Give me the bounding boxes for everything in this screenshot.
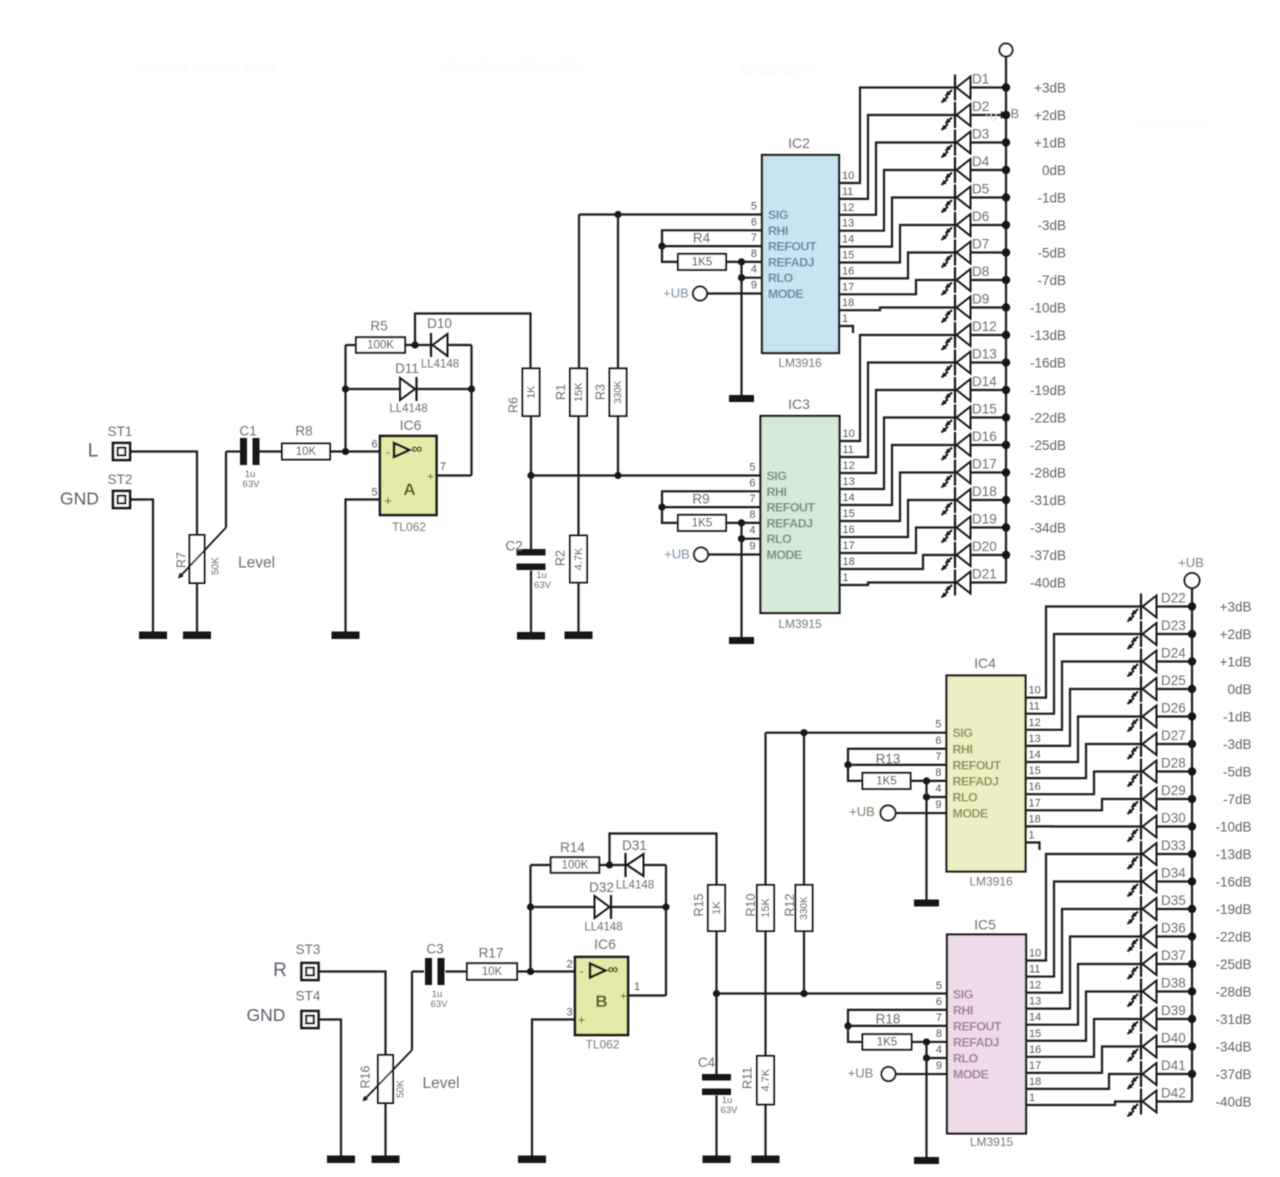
svg-text:D7: D7 [972,237,989,252]
svg-text:D11: D11 [395,361,419,376]
wire ST4 to ground [319,1020,342,1156]
svg-text:-16dB: -16dB [1030,356,1066,371]
ground (C4) [703,1156,731,1164]
wire IC3 pin 11 to D13 [840,363,956,458]
label +3dB [1034,81,1066,96]
svg-text:D30: D30 [1161,811,1186,826]
wire IC5 RLO [927,1057,948,1059]
terminal +UB (IC4) [849,804,895,821]
diode D31 [616,838,654,892]
svg-text:-5dB: -5dB [1037,246,1066,261]
svg-text:D31: D31 [622,838,647,853]
svg-text:LM3916: LM3916 [969,875,1013,889]
svg-text:17: 17 [1029,797,1041,809]
pin 11 label (IC5) [1029,964,1040,976]
node D32 right junction [662,903,669,910]
svg-text:R12: R12 [783,893,797,916]
svg-text:D39: D39 [1161,1003,1186,1018]
svg-text:R10: R10 [744,893,758,916]
wire op-amp output pin 7 [437,474,472,476]
wire IC4 pin 12 to D24 [1026,662,1142,730]
label -13dB [1030,328,1066,343]
node REFADJ junction [738,258,745,265]
svg-text:14: 14 [843,492,855,504]
label GND [60,489,99,509]
wire loop node to R6 top [415,314,531,369]
LED D7 [942,237,1011,268]
label L [88,441,99,462]
svg-text:D42: D42 [1161,1086,1186,1101]
label -40dB [1030,576,1066,591]
node R5/D10 junction [411,341,418,348]
svg-text:8: 8 [751,248,757,260]
capacitor C3 [425,942,448,1011]
svg-text:15: 15 [843,508,855,520]
svg-text:MODE: MODE [953,1068,988,1082]
wire C1 to R8 [260,450,283,452]
svg-text:15: 15 [1029,1028,1041,1040]
svg-text:D28: D28 [1161,756,1186,771]
svg-text:16: 16 [843,524,855,536]
wire IC4 pin 18 to D30 [1026,825,1142,827]
pin 12 label (IC3) [843,460,855,472]
svg-text:4: 4 [751,264,757,276]
svg-text:17: 17 [843,540,855,552]
svg-text:5: 5 [935,719,941,731]
svg-text:-22dB: -22dB [1215,930,1251,945]
svg-text:ST2: ST2 [108,472,133,487]
svg-text:8: 8 [935,767,941,779]
wire IC3 REFOUT [662,506,761,508]
LED D40 [1128,1031,1197,1062]
wire IC2 pin 15 to D6 [839,225,955,263]
wire IC2 pin 11 to D2 [839,115,955,199]
svg-text:D16: D16 [972,429,997,444]
pin 18 label (IC4) [1029,813,1041,825]
node R13 left junction [844,761,851,768]
wire R5 to D10 [405,344,431,346]
svg-text:GND: GND [60,489,99,509]
svg-text:D26: D26 [1161,701,1186,716]
pin 12 label (IC4) [1029,717,1041,729]
svg-text:D33: D33 [1161,838,1186,853]
svg-text:-: - [579,964,583,979]
svg-text:9: 9 [751,280,757,292]
pin 13 label (IC4) [1029,733,1041,745]
wire IC5 SIG line [717,992,948,994]
svg-text:-40dB: -40dB [1215,1095,1251,1110]
wire output riser (B) [665,865,667,996]
wire feedback rail [344,345,346,452]
wire IC5 pin 17 to D40 [1026,1047,1141,1073]
svg-text:RHI: RHI [768,224,788,238]
wire R1 to R2 [577,416,579,536]
svg-text:R8: R8 [295,424,312,439]
svg-text:11: 11 [1029,701,1040,713]
svg-text:LM3915: LM3915 [970,1135,1014,1149]
LED D41 [1128,1058,1197,1089]
LED D37 [1128,948,1197,979]
wire ST2 to ground [130,500,153,632]
svg-text:B: B [595,992,607,1011]
resistor R8 [282,424,330,460]
LED D15 [942,402,1011,433]
resistor R13 1K5 [863,752,911,789]
LED D25 [1128,673,1197,704]
ground (IC5) [914,1157,939,1164]
pin 11 label (IC3) [843,444,854,456]
svg-text:5: 5 [751,201,757,213]
svg-text:C3: C3 [426,942,443,957]
svg-text:R6: R6 [507,397,521,413]
label +3dB (right) [1220,600,1252,615]
svg-text:∞: ∞ [412,441,423,458]
wire pot to ground (R16) [384,1103,386,1156]
wire R18 right to REFADJ [912,1041,948,1043]
svg-text:IC5: IC5 [974,917,996,933]
wire R3 bottom [617,416,619,476]
LED D5 [942,182,1011,213]
ground (op-amp A pin5) [332,632,360,640]
wire R4 right to REFADJ [726,261,762,263]
wire rail to R14 [531,864,552,866]
wire ST1 to pot [130,452,197,536]
label -5dB [1037,246,1066,261]
pin 14 label [842,234,854,246]
wire op-amp output pin 1 [628,994,666,996]
svg-text:SIG: SIG [767,469,787,483]
svg-text:4.7K: 4.7K [760,1068,772,1091]
wire D11 to riser [417,388,472,390]
label -7dB (right) [1223,792,1252,807]
wire op-amp pin 3 [532,1020,575,1156]
svg-text:6: 6 [371,439,377,451]
wire D31 anode to riser [644,864,667,866]
label Level (R) [422,1075,459,1092]
svg-text:0dB: 0dB [1042,163,1066,178]
wire pot wiper to C1 [226,450,240,452]
LED D30 [1128,811,1197,842]
node R3/SIG junction [614,472,621,479]
LED D14 [942,374,1011,405]
wire IC5 pin 1 to D42 [1026,1102,1141,1106]
svg-text:-1dB: -1dB [1223,710,1252,725]
wire R17 to op-amp pin 2 [517,970,575,972]
svg-text:1: 1 [1029,830,1035,842]
pin 1 label [842,313,848,325]
pin 15 label (IC4) [1029,765,1041,777]
label Level [238,555,275,572]
svg-text:13: 13 [842,218,854,230]
wire R10 to R11 [764,931,766,1056]
svg-text:REFADJ: REFADJ [767,516,813,530]
pin 10 label [842,170,854,182]
svg-text:D4: D4 [972,154,990,169]
svg-text:IC6: IC6 [400,417,422,433]
svg-text:4: 4 [935,783,941,795]
svg-text:D5: D5 [972,182,989,197]
svg-text:C4: C4 [698,1055,716,1070]
svg-text:-13dB: -13dB [1030,328,1066,343]
resistor R2 [554,536,588,583]
wire IC3 pin 1 to D21 [840,583,956,586]
svg-text:1: 1 [843,572,849,584]
svg-text:REFOUT: REFOUT [953,758,1002,772]
svg-text:RHI: RHI [953,1003,973,1017]
svg-text:-3dB: -3dB [1223,737,1252,752]
svg-text:12: 12 [843,460,855,472]
wire IC5 pin 14 to D37 [1026,964,1141,1025]
svg-text:14: 14 [1029,1012,1041,1024]
wire +UB to MODE (IC5) [896,1073,948,1075]
LED D24 [1128,646,1197,677]
pin 1 label (IC3) [843,572,849,584]
svg-text:+: + [620,989,627,1003]
svg-text:+: + [578,1012,586,1027]
svg-text:18: 18 [842,297,854,309]
svg-text:REFADJ: REFADJ [953,1035,999,1049]
wire IC4 RHI [848,749,947,765]
op-amp IC3 LM3915 [749,396,839,631]
label -1dB [1037,191,1066,206]
svg-text:4: 4 [749,525,755,537]
svg-text:4: 4 [936,1044,942,1056]
svg-text:R17: R17 [479,946,504,961]
svg-text:D1: D1 [972,72,989,87]
svg-text:-31dB: -31dB [1030,493,1066,508]
pin 17 label (IC3) [843,540,855,552]
LED D18 [942,484,1011,515]
diode D32 [584,880,622,934]
svg-text:LL4148: LL4148 [421,359,459,371]
svg-text:SIG: SIG [768,208,788,222]
svg-text:13: 13 [1029,733,1041,745]
svg-text:-34dB: -34dB [1030,521,1066,536]
svg-text:SIG: SIG [953,726,973,740]
label +2dB [1034,108,1066,123]
svg-text:D34: D34 [1161,866,1186,881]
svg-text:63V: 63V [721,1105,739,1116]
svg-text:1: 1 [634,981,640,993]
terminal (LED supply top left column) [1000,44,1013,57]
svg-text:TL062: TL062 [585,1038,619,1052]
wire IC2 pin 16 to D7 [839,253,955,279]
svg-text:MODE: MODE [953,807,988,821]
svg-text:D9: D9 [972,292,989,307]
svg-text:+UB: +UB [663,286,689,301]
capacitor C2 [505,476,551,633]
LED D39 [1128,1003,1197,1034]
ground (R16) [372,1156,400,1164]
svg-text:LL4148: LL4148 [584,922,622,934]
wire IC4 pin 10 to D22 [1026,607,1142,698]
svg-text:-10dB: -10dB [1030,301,1066,316]
svg-text:D32: D32 [589,880,614,895]
svg-text:+2dB: +2dB [1034,108,1066,123]
node RLO junction [738,274,745,281]
wire IC5 RHI [848,1010,947,1026]
label -3dB [1037,218,1066,233]
svg-text:D35: D35 [1161,893,1186,908]
diode D10 [421,316,459,371]
wire IC4 RLO [927,796,947,798]
wire IC2 pin 1 stub [839,326,853,333]
node R18 left junction [844,1022,851,1029]
svg-text:100K: 100K [367,340,394,352]
svg-text:REFOUT: REFOUT [767,501,816,515]
label -7dB [1037,273,1066,288]
svg-text:16: 16 [1029,1044,1041,1056]
pin 1 label (IC4) [1029,830,1035,842]
svg-text:D27: D27 [1161,728,1186,743]
wire IC3 pin 14 to D16 [840,445,956,505]
node R14/D31 junction [606,861,613,868]
svg-text:Level: Level [238,555,275,572]
wire R12 bottom [803,931,805,994]
label -16dB [1030,356,1066,371]
LED D34 [1128,866,1197,897]
svg-text:LM3915: LM3915 [778,617,822,631]
pin 14 label (IC3) [843,492,855,504]
wire R18 left [848,1026,863,1042]
svg-text:R5: R5 [370,319,387,334]
wire IC2 pin 13 to D4 [839,170,955,231]
pin 2 label [566,959,572,971]
pin 15 label [842,250,854,262]
LED D28 [1128,756,1197,787]
LED D26 [1128,701,1197,732]
svg-text:D41: D41 [1161,1058,1186,1073]
svg-text:-37dB: -37dB [1215,1067,1251,1082]
wire IC5 pin 10 to D33 [1026,854,1141,961]
svg-text:7: 7 [749,493,755,505]
svg-text:330K: 330K [799,896,810,920]
pin 14 label (IC4) [1029,749,1041,761]
wire D32 to riser [611,906,666,908]
label +2dB (right) [1220,627,1252,642]
wire IC2 SIG line [579,213,762,215]
LED D9 [942,292,1011,323]
svg-text:D14: D14 [972,374,997,389]
svg-text:C1: C1 [239,424,256,439]
wire rail to D11 [346,388,401,390]
node R15/C4/SIG junction [713,990,720,997]
wire REFADJ to ground [740,262,742,395]
wire IC3 pin 16 to D18 [840,500,956,537]
wire REFADJ to ground (IC5) [925,1042,927,1157]
label -37dB [1030,548,1066,563]
svg-text:-40dB: -40dB [1030,576,1066,591]
svg-text:-31dB: -31dB [1215,1012,1251,1027]
wire IC4 pin 15 to D27 [1026,744,1142,778]
wire IC4 pin 16 to D28 [1026,772,1142,795]
wire R13 right to REFADJ [911,780,947,782]
ground (IC2) [729,395,754,402]
pin 5 label [371,487,377,499]
svg-text:-7dB: -7dB [1037,273,1066,288]
svg-text:8: 8 [936,1028,942,1040]
node D11 left junction [342,385,349,392]
ST3 connector (R input) [296,942,321,980]
pin 17 label [842,281,854,293]
svg-text:+: + [427,470,434,484]
svg-text:RHI: RHI [953,742,973,756]
svg-text:IC6: IC6 [594,936,616,952]
svg-text:-28dB: -28dB [1030,466,1066,481]
op-amp IC2 LM3916 [751,135,839,370]
svg-text:15K: 15K [573,382,585,402]
LED D33 [1128,838,1197,869]
wire wiper to C3 [412,970,424,972]
svg-text:∞: ∞ [608,961,619,978]
label -5dB (right) [1223,765,1252,780]
wire R9 left [662,507,678,523]
svg-text:ST1: ST1 [108,424,133,439]
pin 14 label (IC5) [1029,1012,1041,1024]
ground (R7) [183,632,211,640]
pin 6 label [371,439,377,451]
svg-text:13: 13 [843,476,855,488]
svg-text:R1: R1 [554,384,568,400]
svg-text:1: 1 [1029,1092,1035,1104]
svg-text:D15: D15 [972,402,997,417]
label 0dB [1042,163,1066,178]
svg-text:18: 18 [843,556,855,568]
LED D23 [1128,618,1197,649]
LED D36 [1128,921,1197,952]
svg-text:REFOUT: REFOUT [953,1019,1002,1033]
LED D1 [942,72,1011,103]
resistor R6 [507,368,540,416]
svg-text:IC4: IC4 [974,655,996,671]
pin 17 label (IC4) [1029,797,1041,809]
label -10dB [1030,301,1066,316]
label -34dB (right) [1215,1040,1251,1055]
node D32 left junction [527,903,534,910]
svg-text:4.7K: 4.7K [573,547,585,570]
node R3 top junction [614,211,621,218]
resistor R9 1K5 [678,492,726,531]
svg-text:D24: D24 [1161,646,1186,661]
resistor R12 [783,885,813,931]
svg-text:+UB: +UB [849,804,875,819]
svg-text:D20: D20 [972,539,997,554]
svg-text:16: 16 [842,265,854,277]
label -16dB (right) [1215,875,1251,890]
wire output riser [470,345,472,476]
svg-text:10: 10 [1029,948,1041,960]
svg-text:-34dB: -34dB [1215,1040,1251,1055]
wire IC2 REFOUT [662,245,762,247]
wire IC4 pin 11 to D23 [1026,634,1142,714]
pin 7 label [440,461,446,473]
pin 15 label (IC3) [843,508,855,520]
resistor R14 [551,840,600,873]
svg-text:MODE: MODE [768,287,803,301]
pin 12 label (IC5) [1029,980,1041,992]
LED D16 [942,429,1011,460]
svg-text:15K: 15K [760,898,772,918]
node D11 right junction [468,385,475,392]
svg-text:5: 5 [749,462,755,474]
pin 16 label (IC4) [1029,781,1041,793]
pin 18 label [842,297,854,309]
svg-text:12: 12 [842,202,854,214]
svg-text:NNNNNNNN: NNNNNNNN [1140,119,1209,133]
svg-text:3: 3 [566,1007,572,1019]
svg-text:2: 2 [566,959,572,971]
svg-text:10K: 10K [296,446,317,458]
